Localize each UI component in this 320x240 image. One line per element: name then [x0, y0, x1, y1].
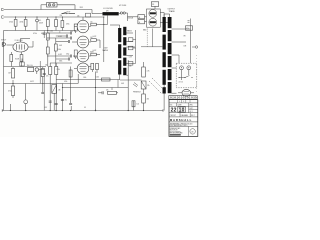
svg-text:0.022: 0.022: [93, 36, 97, 38]
wire chain bus: [47, 17, 49, 20]
wire pot out: [39, 69, 45, 71]
svg-text:385V: 385V: [80, 7, 84, 9]
title block subtitle row: [169, 116, 198, 118]
wire mid-left bus: [4, 83, 79, 85]
diode D2 rectifier: [128, 46, 133, 50]
title block model number 2210: [169, 112, 198, 114]
wire V2a anode: [82, 17, 84, 20]
transformer T1 mains secondary winding: [123, 27, 126, 35]
resistor R4 anode load: [21, 52, 23, 55]
node rail right end: [162, 109, 164, 111]
resistor R22 screen: [138, 20, 145, 24]
wire rectifier bus: [135, 30, 137, 64]
node left connector B: [2, 15, 4, 17]
wire x44 lower: [42, 84, 44, 93]
capacitor C10: [43, 32, 46, 34]
capacitor C7: [55, 103, 58, 105]
wire r27 down: [55, 27, 57, 31]
resistor R28: [62, 16, 63, 17]
wire branch: [25, 84, 27, 97]
wire HT rail B: [4, 16, 104, 18]
svg-text:MARSHALL: MARSHALL: [170, 118, 192, 122]
wire h0: [48, 32, 70, 34]
title block stamp: [190, 129, 195, 134]
svg-text:470k: 470k: [33, 33, 37, 35]
svg-text:470p: 470p: [66, 54, 69, 56]
svg-text:SHT 1: SHT 1: [189, 108, 193, 110]
node rail left end: [1, 109, 3, 111]
resistor R26: [46, 20, 49, 27]
resistor R20b: [55, 63, 57, 67]
svg-text:1k: 1k: [139, 17, 141, 19]
svg-text:0.68: 0.68: [121, 83, 124, 85]
wire tube column links: [74, 26, 77, 28]
wire T2 sec tap 4: [172, 67, 177, 69]
wire V1 anode: [20, 39, 22, 43]
svg-text:47k: 47k: [147, 99, 150, 101]
resistor R2 470k: [25, 16, 26, 17]
resistor R13: [91, 63, 94, 69]
svg-text:0V: 0V: [84, 107, 86, 109]
wire r28 down: [61, 28, 63, 31]
wire dotted right margin: [196, 55, 198, 94]
lamp LP1 pilot: [24, 100, 28, 104]
wire standby stub: [67, 13, 75, 15]
svg-text:470k: 470k: [19, 22, 23, 24]
diode D3 rectifier: [128, 62, 133, 66]
svg-text:100k: 100k: [96, 77, 100, 79]
wire lower bus: [4, 66, 47, 68]
resistor R7: [46, 33, 49, 40]
svg-text:1M LOG: 1M LOG: [27, 65, 34, 67]
resistor R12: [91, 53, 97, 56]
node left connector A: [2, 7, 4, 9]
wire: [47, 54, 49, 67]
terminal strip TB1: [169, 96, 197, 100]
wire bus 87: [62, 87, 128, 89]
svg-text:47u: 47u: [46, 76, 49, 78]
svg-text:1k5: 1k5: [90, 22, 93, 24]
wire h6: [56, 35, 66, 37]
svg-text:22: 22: [171, 108, 177, 114]
wire V5 plate: [160, 21, 169, 23]
resistor R30: [20, 62, 24, 66]
svg-text:TRANS: TRANS: [169, 10, 176, 13]
wire oval stubs: [178, 92, 182, 94]
wire r25: [75, 31, 77, 33]
wire stub: [9, 104, 11, 111]
svg-text:25k: 25k: [77, 16, 80, 18]
node right edge mark: [188, 20, 190, 22]
svg-text:10: 10: [179, 108, 185, 114]
title block lower divider: [188, 126, 190, 136]
resistor R11: [91, 39, 97, 42]
fuse FS1 mains fuse: [47, 3, 58, 7]
svg-text:10k: 10k: [45, 65, 48, 67]
svg-text:CIRCUIT: CIRCUIT: [170, 115, 176, 117]
resistor R19: [42, 67, 44, 69]
wire T2 sec bottom: [172, 92, 177, 94]
connector J3 speaker jack: [187, 66, 191, 70]
resistor R21 screen: [138, 15, 145, 19]
switch S2 standby: [69, 13, 75, 15]
valve V3a triode: [77, 50, 89, 62]
svg-text:470k: 470k: [64, 81, 68, 83]
wire V2 V3 right links: [89, 41, 91, 43]
wire fuse bypass loop: [40, 5, 42, 10]
valve V3b triode: [77, 63, 89, 74]
svg-text:MAINS: MAINS: [103, 49, 109, 52]
connector panel outline dashed: [176, 63, 197, 88]
title block MARSHALL logo: [169, 121, 198, 123]
potentiometer VR2 presence: [141, 81, 146, 89]
fuse FS2 HT fuse: [119, 13, 121, 15]
svg-text:100k: 100k: [58, 49, 62, 51]
svg-text:470k: 470k: [8, 91, 12, 93]
wire vert 95: [95, 72, 97, 111]
svg-text:0.68: 0.68: [59, 45, 62, 47]
svg-text:ISS: ISS: [170, 105, 172, 107]
title block outer frame: [169, 100, 198, 137]
valve heater oval: [182, 89, 191, 96]
wire h5: [56, 58, 68, 60]
svg-text:OF 1: OF 1: [189, 111, 192, 113]
resistor R3 cathode: [10, 52, 12, 55]
wire chain mid: [47, 27, 49, 34]
resistor R16: [143, 62, 145, 67]
capacitor C7b: [49, 100, 52, 102]
title block company row: [169, 125, 198, 127]
svg-text:B: B: [183, 101, 184, 103]
wire bus 79: [56, 79, 120, 81]
wire diag dashed 2: [152, 78, 164, 90]
transformer T1 mains primary winding: [118, 28, 121, 42]
wire r31 stub: [75, 57, 77, 59]
svg-text:HT FUSE: HT FUSE: [119, 5, 127, 7]
svg-text:1n: 1n: [59, 32, 61, 34]
resistor R24: [69, 70, 72, 77]
transformer T2 primary winding: [163, 17, 166, 32]
wire HT rail A: [4, 9, 93, 11]
wire r20 down: [49, 75, 51, 80]
connector J2 speaker jack: [180, 66, 184, 70]
connector J1 input jack: [3, 43, 6, 46]
wire T2 sec tap 3: [172, 54, 180, 56]
capacitor C14: [66, 35, 68, 38]
capacitor C3: [70, 37, 72, 40]
svg-text:22k: 22k: [147, 85, 150, 87]
wire FS3 down: [154, 6, 156, 8]
wire h2: [56, 41, 68, 43]
resistor R20: [49, 63, 51, 67]
valve V2a triode: [77, 20, 89, 33]
capacitor C1: [36, 16, 37, 17]
wire heater rail: [2, 110, 163, 112]
resistor R10 grid stopper: [91, 23, 97, 26]
svg-text:470k: 470k: [66, 24, 70, 26]
valve V1 ECC83 input triode: [13, 42, 28, 52]
wire T1 sec taps: [126, 32, 133, 34]
svg-text:1k: 1k: [139, 22, 141, 24]
svg-text:6.3V: 6.3V: [129, 57, 132, 59]
diode D1 rectifier: [128, 38, 133, 42]
resistor R15: [108, 91, 117, 94]
wire left bus: [3, 31, 5, 111]
svg-text:4 8 16: 4 8 16: [179, 82, 183, 84]
wire diag dashed: [149, 81, 162, 94]
potentiometer VR3 master volume: [52, 85, 57, 94]
svg-text:0.022: 0.022: [30, 81, 34, 83]
wire stubs to rail: [49, 79, 51, 111]
fuse FS3 cathode fuse: [151, 2, 158, 7]
wire dash marks: [133, 84, 137, 87]
wire jack to V1: [7, 44, 14, 46]
svg-text:100k: 100k: [50, 31, 54, 33]
svg-text:470k: 470k: [9, 22, 13, 24]
wire x78 vert: [77, 74, 79, 84]
wire T2 bottom to rail: [163, 85, 165, 111]
resistor R8: [46, 47, 49, 54]
resistor R14: [102, 78, 111, 81]
capacitor C12: [101, 91, 103, 94]
resistor R31: [74, 50, 77, 57]
wire feedback h: [141, 46, 162, 48]
capacitor C11: [68, 58, 70, 61]
wire screens to valves: [145, 16, 147, 18]
resistor R17: [143, 89, 145, 94]
resistor R5: [12, 67, 14, 69]
title block issue row: [169, 105, 198, 107]
svg-text:BLETCHLEY: BLETCHLEY: [170, 130, 178, 132]
potentiometer VR1 volume: [35, 68, 38, 71]
wire right bus: [190, 19, 192, 64]
wire h1: [48, 37, 70, 39]
svg-text:100k: 100k: [83, 77, 87, 79]
node bus83 junctions: [12, 83, 13, 84]
wire T1 primary top: [119, 25, 121, 28]
wire: [47, 40, 49, 47]
wire h4: [50, 62, 72, 64]
valve V5 EL34: [149, 18, 157, 26]
resistor R9: [55, 38, 57, 44]
wire R6 bottom: [12, 96, 14, 99]
wire VR3 down: [53, 93, 55, 110]
svg-text:10k: 10k: [137, 104, 140, 106]
svg-text:6.3V: 6.3V: [44, 107, 47, 109]
svg-text:FS: FS: [152, 4, 154, 6]
title block revision row: [169, 102, 198, 104]
svg-text:V1 ECC83: V1 ECC83: [15, 40, 23, 42]
wire T2 sec tap 1: [172, 28, 191, 30]
svg-text:DRN: DRN: [189, 105, 192, 107]
svg-text:PRESENCE: PRESENCE: [133, 92, 141, 94]
wire stub x71: [70, 106, 72, 111]
svg-text:47k: 47k: [106, 90, 109, 92]
svg-text:ISS 7: ISS 7: [191, 115, 195, 117]
resistor R29: [86, 13, 91, 17]
wire bus link: [117, 80, 119, 88]
svg-text:47u: 47u: [65, 100, 68, 102]
wire T2 top: [163, 14, 165, 17]
resistor R23 feedback: [186, 26, 193, 30]
capacitor C6: [61, 99, 64, 101]
wire V4 plate: [160, 12, 164, 14]
wire V1 to coupling: [28, 46, 33, 48]
svg-text:ST.BY: ST.BY: [67, 11, 71, 13]
svg-text:220k: 220k: [57, 69, 61, 71]
capacitor C8: [69, 103, 72, 105]
wire vert x128: [127, 60, 129, 111]
valve V4 EL34 envelope box: [147, 9, 161, 27]
inductor L1 smoothing choke: [103, 12, 119, 15]
wire h x120 80: [120, 79, 142, 81]
wire jacks down: [181, 70, 183, 80]
svg-text:47k: 47k: [186, 28, 189, 30]
connector right stub: [195, 46, 197, 48]
resistor R18: [132, 101, 135, 107]
wire rail A drop: [91, 10, 93, 14]
wire x44 vert: [43, 31, 45, 39]
svg-text:0.022: 0.022: [58, 54, 62, 56]
resistor R6: [12, 80, 14, 86]
resistor R25: [74, 24, 77, 31]
resistor R1 470k: [15, 16, 16, 17]
wire T2 sec tap 2: [172, 41, 187, 43]
title block issue line: [170, 134, 181, 135]
wire x40 vert: [39, 61, 41, 84]
svg-text:22k: 22k: [60, 15, 63, 17]
wire: [42, 77, 44, 84]
wire r17 bottom: [143, 103, 145, 111]
wire x70 vert: [70, 67, 72, 104]
wire anode feeds: [96, 24, 107, 26]
resistor R13b: [96, 63, 99, 69]
valve V4 EL34: [149, 10, 157, 18]
wire feedback v: [151, 29, 153, 47]
svg-text:330k: 330k: [59, 61, 63, 63]
wire choke drop: [107, 16, 109, 25]
capacitor C2 bright: [28, 67, 34, 71]
wire screen feed: [103, 17, 105, 62]
node rail junctions: [10, 110, 11, 111]
svg-text:1k5: 1k5: [90, 37, 93, 39]
wire bias dashed: [146, 29, 148, 48]
switch S3 impedance selector: [179, 77, 185, 79]
wire input bus: [8, 30, 76, 32]
wire x56 vert: [55, 75, 57, 80]
wire x62 vert: [61, 84, 63, 88]
capacitor C4: [68, 40, 70, 43]
wire vert 87 to 93: [111, 88, 113, 91]
svg-text:4.7k: 4.7k: [147, 71, 150, 73]
valve V2b triode: [77, 36, 89, 48]
wire h3: [48, 55, 70, 57]
wire T1 bottom: [119, 75, 121, 80]
wire bias feed: [127, 13, 129, 21]
transformer T2 secondary winding: [168, 17, 172, 28]
resistor R27: [55, 16, 56, 17]
capacitor C5: [70, 55, 72, 58]
wire stub x133: [133, 101, 135, 111]
capacitor C9: [70, 32, 72, 35]
capacitor C13: [43, 70, 45, 74]
svg-text:56k: 56k: [129, 66, 132, 68]
